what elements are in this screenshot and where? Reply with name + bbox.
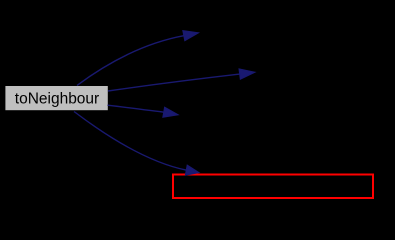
node toNeighbour (5, 85, 109, 111)
arrowhead edge 2 (239, 69, 255, 79)
arrowhead edge 4 (185, 165, 199, 175)
svg-text:toNeighbour: toNeighbour (15, 91, 99, 108)
edge 1 (toNeighbour to top node) (77, 36, 184, 86)
node red (truncated) (173, 175, 373, 199)
edge 3 (toNeighbour to third node) (108, 105, 164, 112)
arrowhead edge 1 (183, 31, 199, 41)
edge 2 (toNeighbour to second node) (108, 74, 240, 91)
edge 4 (toNeighbour to red node) (74, 112, 186, 171)
arrowhead edge 3 (163, 107, 179, 117)
